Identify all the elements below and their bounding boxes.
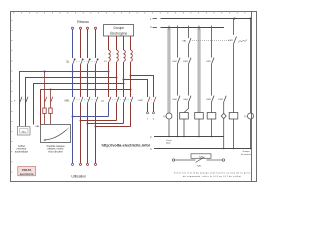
svg-text:Circuit: Circuit bbox=[166, 139, 172, 142]
svg-text:KM1: KM1 bbox=[206, 61, 211, 63]
svg-text:et/ou de prise: et/ou de prise bbox=[48, 151, 63, 154]
svg-text:Électrogène: Électrogène bbox=[110, 30, 127, 35]
svg-text:KM2: KM2 bbox=[183, 61, 188, 63]
svg-text:Groupe: Groupe bbox=[113, 26, 124, 30]
svg-text:de secours: de secours bbox=[241, 154, 251, 156]
svg-text:KM1: KM1 bbox=[219, 99, 224, 101]
svg-text:de commande, relier le fil 4 a: de commande, relier le fil 4 au fil 2 du… bbox=[183, 175, 241, 178]
svg-text:KM2: KM2 bbox=[206, 99, 211, 101]
svg-text:Utilisation: Utilisation bbox=[71, 174, 86, 178]
svg-text:KM2: KM2 bbox=[228, 40, 233, 42]
svg-text:ELECTRICITE: ELECTRICITE bbox=[20, 174, 34, 176]
svg-text:Groupe: Groupe bbox=[243, 151, 251, 153]
svg-text:KM2: KM2 bbox=[138, 100, 143, 102]
svg-text:(2): (2) bbox=[244, 116, 247, 118]
svg-text:KM1: KM1 bbox=[65, 100, 71, 103]
svg-text:Réseau: Réseau bbox=[77, 20, 89, 24]
svg-text:Si les fils 4 et 8 du groupe s: Si les fils 4 et 8 du groupe sont fourni… bbox=[174, 171, 251, 174]
svg-text:automatique: automatique bbox=[15, 151, 29, 154]
svg-text:(1): (1) bbox=[163, 116, 166, 118]
svg-text:http://volta-electricite.info/: http://volta-electricite.info/ bbox=[102, 143, 151, 148]
svg-text:VOLTA: VOLTA bbox=[22, 168, 33, 172]
